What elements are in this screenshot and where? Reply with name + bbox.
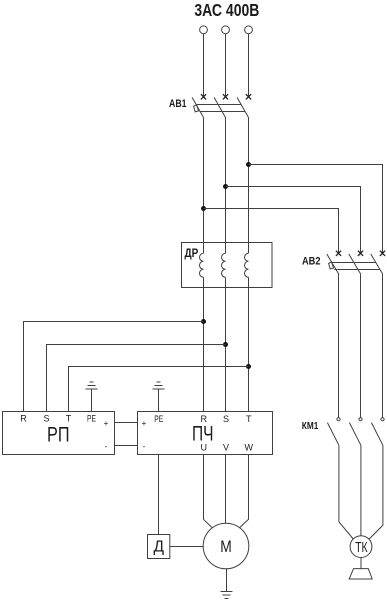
breaker AB1 pole 1 blade [192,97,204,118]
junction dot phase A to RP [201,319,206,324]
wire RP PE to earth [91,389,93,412]
wire phase A AB1 to DR [203,118,205,253]
svg-text:ТК: ТК [355,540,368,556]
breaker AB1 crossbar top [197,104,241,106]
wire PCh PE to earth [158,389,160,412]
svg-text:-: - [143,442,146,451]
wire tap phase A to RP R [24,322,204,412]
wire PCh V to motor [225,455,227,524]
junction dot phase C to RP [246,364,251,369]
inductor coil phase C [245,253,249,277]
breaker AB2 pole 3 contact X [380,251,385,256]
wire RP plus to PCh plus [115,422,138,424]
svg-text:R: R [20,414,27,424]
contactor KM1 pole 3 blade [371,423,383,446]
earth symbol at PCh PE [153,382,165,389]
svg-text:T: T [246,414,252,424]
encoder D box [148,535,170,559]
contactor KM1 pole 2 fixed contact [359,418,362,421]
wire tap phase B to RP S [47,345,226,412]
contactor KM1 pole 1 fixed contact [337,418,340,421]
svg-text:РП: РП [47,422,70,446]
frequency converter PCh box [138,412,273,455]
wire phase A tap to AB2 pole 1 [204,209,339,254]
svg-text:3АС 400В: 3АС 400В [194,0,259,20]
junction dot phase B to AB2 [223,184,228,189]
svg-text:АВ1: АВ1 [169,98,187,110]
contactor KM1 pole 3 fixed contact [381,418,384,421]
wire D to motor [170,546,204,548]
choke DR box [182,243,273,288]
breaker AB2 pole 3 blade [371,254,383,274]
junction dot phase C to AB2 [246,162,251,167]
breaker AB2 crossbar bottom [334,269,379,271]
svg-text:-: - [105,442,108,451]
wire KM1 pole3 to TK [369,445,383,539]
wire L1 to AB1 [203,34,205,97]
wire phase C DR to PCh T [248,277,250,411]
breaker AB1 pole 2 blade [214,97,226,118]
svg-text:S: S [223,414,229,424]
breaker AB2 release box [329,262,334,269]
earth symbol at RP PE [86,382,98,389]
wire AB2 pole2 to KM1 [360,274,362,417]
breaker AB2 pole 2 contact X [358,251,363,256]
svg-text:КМ1: КМ1 [302,421,319,432]
contactor KM1 pole 1 blade [327,423,339,446]
earth symbol below motor [221,592,233,599]
junction dot phase B to RP [223,342,228,347]
wire KM1 pole2 to TK [360,445,362,536]
breaker AB2 pole 1 blade [327,254,339,274]
input terminal L1 [200,26,208,34]
breaker AB1 crossbar bottom [200,111,246,113]
svg-text:PE: PE [154,414,163,424]
wire PCh W to motor [239,455,248,528]
svg-text:W: W [245,442,254,452]
breaker AB1 pole 3 blade [237,97,249,118]
wire tap phase C to RP T [69,367,249,412]
wire phase B DR to PCh S [225,277,227,411]
breaker AB1 pole 2 contact X [223,94,228,99]
svg-text:PE: PE [87,414,96,424]
wire PCh to encoder D [158,455,160,535]
inductor coil phase A [200,253,204,277]
wire RP minus to PCh minus [115,445,138,447]
wire motor to earth [226,569,228,592]
svg-text:АВ2: АВ2 [302,255,321,267]
wire phase C AB1 to DR [248,118,250,253]
wire L3 to AB1 [248,34,250,97]
inductor coil phase B [222,253,226,277]
wire AB2 pole3 to KM1 [382,274,384,417]
wire phase B AB1 to DR [225,118,227,253]
breaker AB2 crossbar top [332,262,376,264]
wire KM1 pole1 to TK [339,445,353,539]
svg-text:Д: Д [154,539,165,556]
relay module RP box [3,412,115,455]
contactor KM1 pole 2 blade [349,423,361,446]
brake coil TK circle [350,536,372,558]
input terminal L2 [222,26,230,34]
breaker AB1 pole 3 contact X [246,94,251,99]
wire phase B tap to AB2 pole 2 [226,187,361,254]
breaker AB2 pole 2 blade [349,254,361,274]
wire TK to brake shoe [360,558,362,569]
wire L2 to AB1 [225,34,227,97]
wire phase C tap to AB2 pole 3 [249,165,383,254]
wire PCh U to motor [204,455,213,528]
svg-text:U: U [200,442,207,452]
brake shoe symbol [349,569,372,579]
svg-text:V: V [223,442,229,452]
wire phase A DR to PCh R [203,277,205,411]
breaker AB2 pole 1 contact X [336,251,341,256]
svg-text:ДР: ДР [185,246,199,260]
breaker AB1 release box [194,105,199,112]
wire AB2 pole1 to KM1 [338,274,340,417]
breaker AB1 pole 1 contact X [201,94,206,99]
svg-text:+: + [104,419,109,428]
input terminal L3 [245,26,253,34]
svg-text:М: М [220,538,232,556]
motor M circle [203,523,249,569]
junction dot phase A to AB2 [201,206,206,211]
svg-text:+: + [142,419,147,428]
